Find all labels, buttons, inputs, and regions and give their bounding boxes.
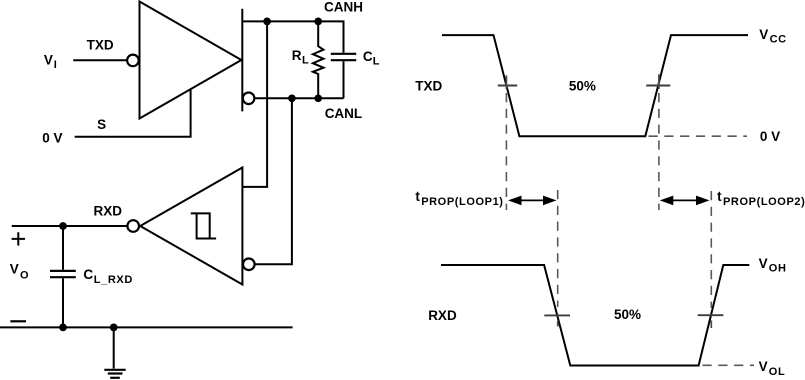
svg-text:V: V [759,359,768,374]
svg-text:S: S [97,117,106,132]
svg-text:RXD: RXD [94,204,123,219]
svg-text:PROP(LOOP1): PROP(LOOP1) [421,196,503,208]
svg-text:TXD: TXD [415,79,442,94]
svg-text:CC: CC [770,33,787,45]
svg-text:t: t [717,189,722,204]
svg-text:50%: 50% [569,78,596,93]
svg-text:OL: OL [769,366,785,378]
svg-text:TXD: TXD [87,38,114,53]
svg-text:L: L [302,54,309,66]
svg-text:PROP(LOOP2): PROP(LOOP2) [723,196,805,208]
svg-text:0 V: 0 V [760,129,780,144]
svg-text:t: t [415,189,420,204]
svg-text:V: V [44,52,53,67]
svg-text:R: R [292,48,302,63]
svg-text:OH: OH [769,263,787,275]
svg-text:50%: 50% [614,307,641,322]
svg-text:V: V [759,27,768,42]
svg-text:CANL: CANL [325,106,363,121]
svg-text:C: C [83,267,93,282]
svg-text:V: V [10,261,19,276]
svg-text:C: C [363,49,373,64]
svg-text:O: O [20,269,29,281]
svg-text:CANH: CANH [324,0,363,15]
svg-text:I: I [54,59,58,71]
svg-text:V: V [759,256,768,271]
svg-text:0 V: 0 V [42,130,62,145]
svg-text:L: L [373,55,380,67]
svg-text:RXD: RXD [428,308,457,323]
svg-text:L_RXD: L_RXD [94,274,133,286]
